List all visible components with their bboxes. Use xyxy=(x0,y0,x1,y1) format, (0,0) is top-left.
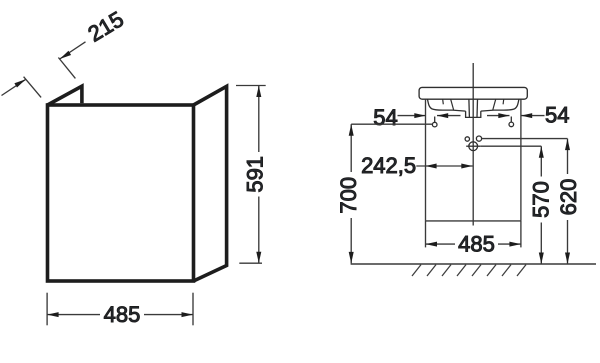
dimension 620 line xyxy=(567,139,569,264)
extension line to 620 xyxy=(482,138,568,140)
right fixing hole xyxy=(509,117,514,127)
dimension 485 (front view) arrows xyxy=(426,242,521,247)
dimension 242,5 line xyxy=(416,165,472,167)
dimension 485 (left view) arrows xyxy=(47,312,193,317)
cabinet right edge (front view) xyxy=(520,99,522,221)
dimension 620 arrows xyxy=(565,139,570,264)
dimension 215 extension lines xyxy=(24,58,76,98)
dimension 54 left line xyxy=(398,115,461,117)
dimension 570 line xyxy=(540,146,542,264)
svg-text:570: 570 xyxy=(528,181,553,218)
washbasin bowl divider lines xyxy=(443,99,504,110)
dimension 570 arrows xyxy=(539,146,544,264)
dimension 54 left arrows xyxy=(414,113,448,118)
cabinet left side panel top edge xyxy=(48,86,82,105)
cabinet right side panel xyxy=(194,86,227,281)
svg-text:620: 620 xyxy=(556,179,581,216)
cabinet front panel (perspective view) xyxy=(48,105,194,281)
svg-text:485: 485 xyxy=(104,302,141,327)
dimension 485 (left view) extension lines xyxy=(47,293,193,326)
ground line xyxy=(351,263,596,265)
ground hatching xyxy=(412,265,526,276)
svg-text:700: 700 xyxy=(336,177,361,214)
washbasin rim slab xyxy=(419,87,527,99)
siphon small holes xyxy=(465,136,482,141)
dimension 591 arrows xyxy=(256,86,261,264)
washbasin drain boss xyxy=(466,99,481,117)
dimension 700 line xyxy=(350,124,352,263)
dimension 485 (left view) line xyxy=(47,314,193,316)
washbasin bowl underside left xyxy=(428,99,466,111)
svg-text:215: 215 xyxy=(84,6,128,46)
washbasin bowl underside right xyxy=(481,99,519,111)
left fixing hole xyxy=(432,117,437,127)
svg-text:54: 54 xyxy=(545,103,569,128)
dimension 215 line xyxy=(2,42,86,96)
extension line to 570 xyxy=(480,145,541,147)
dimension 485 (front view) line xyxy=(426,243,521,245)
dimension 242,5 arrows xyxy=(425,164,472,169)
cabinet left edge (front view) xyxy=(425,99,427,221)
washbasin centerline xyxy=(472,63,474,226)
cabinet bottom edge (front view) xyxy=(426,220,521,222)
svg-text:591: 591 xyxy=(243,156,268,193)
cabinet 485 extension stubs xyxy=(426,221,521,248)
dimension 54 right arrows xyxy=(498,113,532,118)
dimension 215 arrows xyxy=(14,51,71,88)
dimension 591 line xyxy=(258,86,260,264)
svg-text:242,5: 242,5 xyxy=(361,153,416,178)
svg-text:54: 54 xyxy=(373,105,397,130)
dimension 54 right line xyxy=(487,115,545,117)
dimension 700 arrows xyxy=(349,124,354,263)
drain crosshair circle xyxy=(466,142,480,151)
extension line hole height (700 top) xyxy=(351,123,432,125)
svg-text:485: 485 xyxy=(458,232,495,257)
dimension 591 extension lines xyxy=(236,86,266,264)
